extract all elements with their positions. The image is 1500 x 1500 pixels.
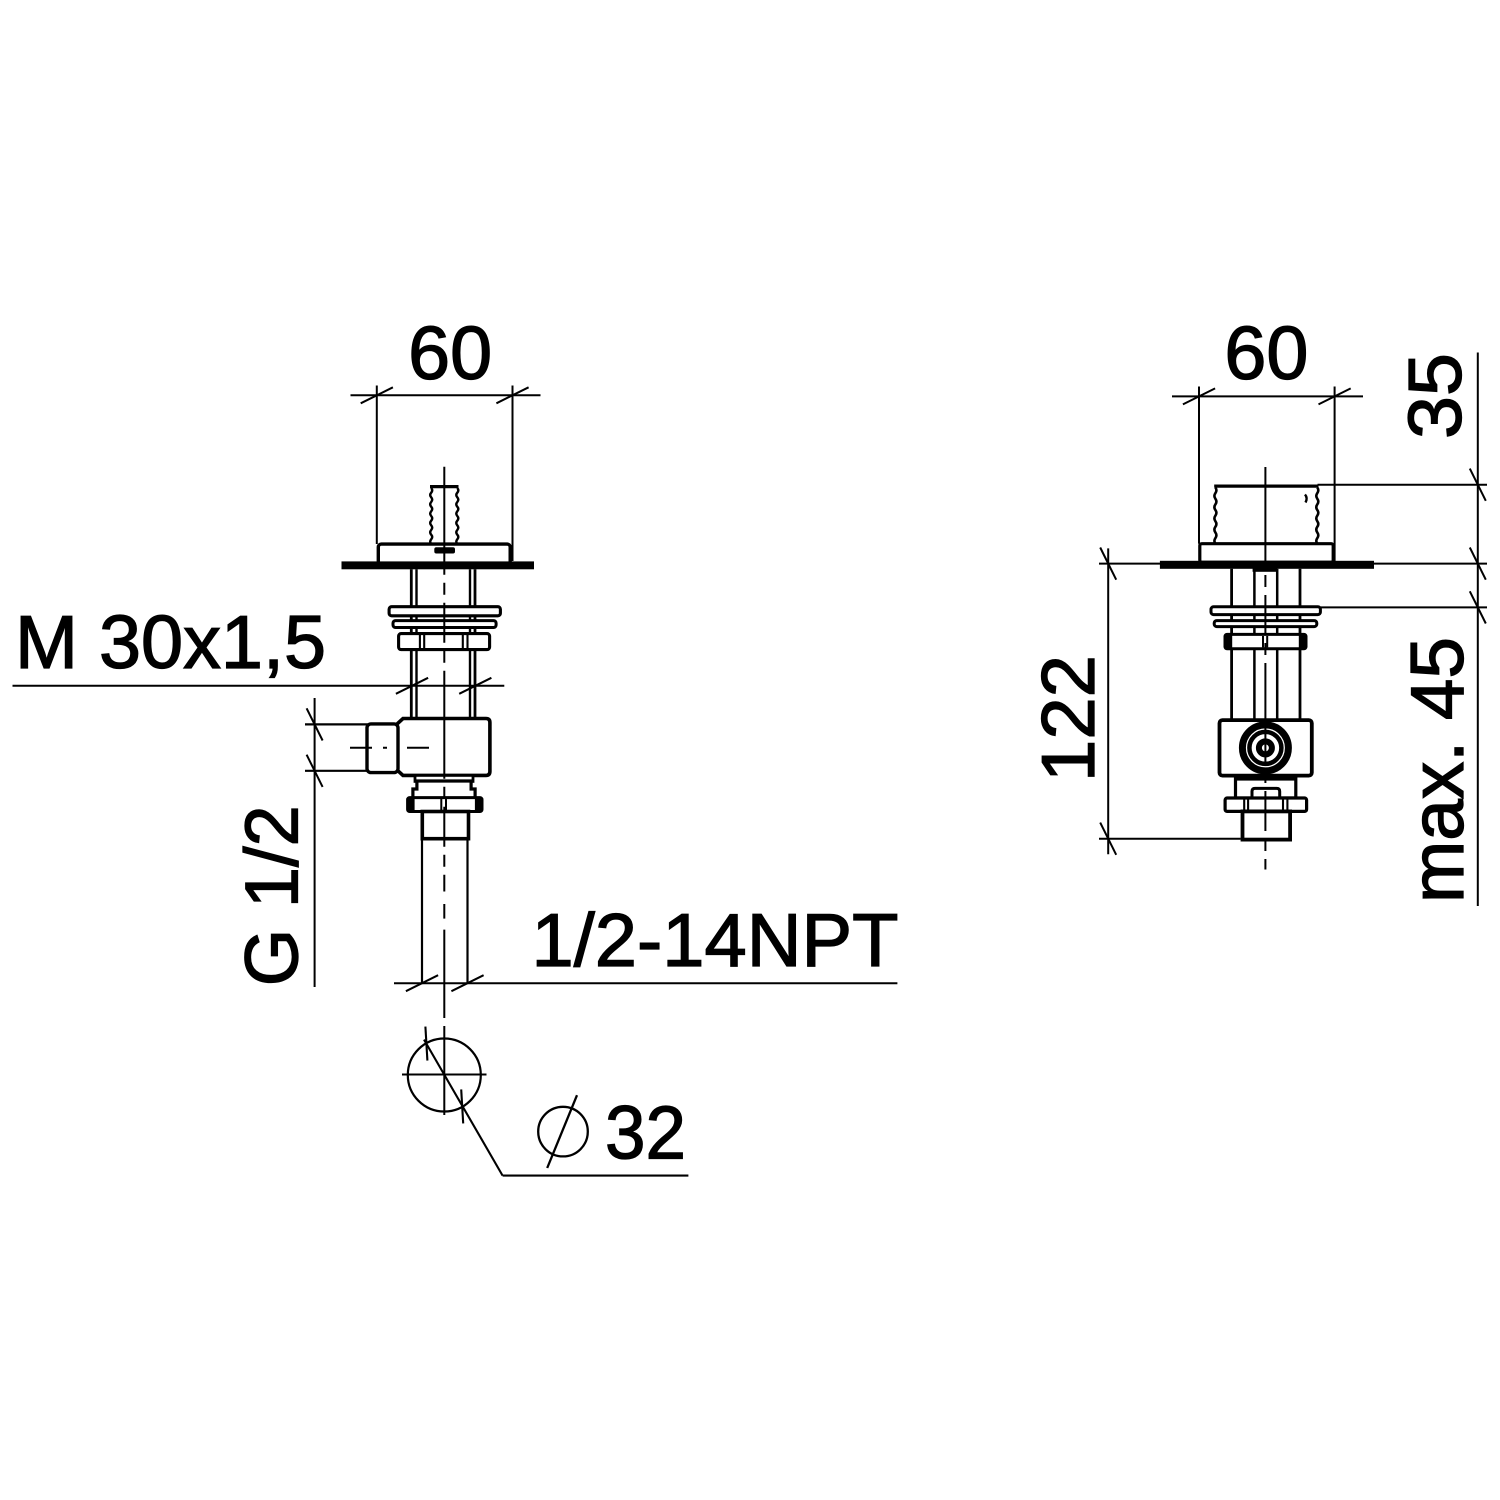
- hex nut (right view): [1225, 634, 1306, 649]
- valve body block (left view): [395, 719, 490, 776]
- svg-text:35: 35: [1393, 353, 1477, 439]
- hex nut upper (left view): [399, 634, 490, 650]
- black clamp mark on cap (left view): [434, 547, 455, 553]
- lower flange (left view): [413, 775, 475, 797]
- washer 2 (right view): [1214, 621, 1317, 627]
- svg-text:G 1/2: G 1/2: [230, 805, 314, 986]
- dimension line 122: [1099, 548, 1241, 855]
- washer 1 (right view): [1211, 607, 1320, 615]
- washer 1 (left view): [389, 607, 500, 616]
- connection stub (left view): [422, 812, 468, 839]
- centerline (left view): [443, 467, 445, 892]
- locking nut lower (left view): [407, 797, 483, 812]
- svg-text:32: 32: [605, 1091, 686, 1175]
- washer 2 (left view): [393, 621, 496, 628]
- outlet sleeve (left view): [367, 724, 398, 773]
- knurled knob (right view): [1214, 486, 1318, 544]
- circle crosshair: [402, 1074, 487, 1076]
- side pipe edges (left view): [305, 724, 368, 770]
- svg-text:M 30x1,5: M 30x1,5: [15, 600, 326, 684]
- cap base (right view): [1200, 544, 1333, 563]
- svg-text:60: 60: [408, 311, 492, 395]
- locking nut lower (right view): [1225, 798, 1307, 811]
- valve body block (right view): [1220, 720, 1312, 776]
- lower flange (right view): [1236, 776, 1296, 798]
- dimension G 1/2: [307, 698, 323, 987]
- svg-text:60: 60: [1224, 311, 1308, 395]
- outlet port rings (right view): [1242, 725, 1288, 771]
- dimension lines 35 and max. 45: [1318, 353, 1488, 907]
- side pipe centerline: [350, 747, 432, 749]
- escutcheon cap (left view): [378, 544, 510, 564]
- threaded stem M30 (left view): [430, 487, 459, 544]
- connection stub (right view): [1243, 811, 1291, 839]
- lower pipe (left view): [422, 839, 468, 984]
- mounting plate (right view): [1160, 561, 1374, 569]
- centerline (right view): [1264, 467, 1266, 870]
- body tube (left view): [411, 569, 475, 718]
- body tube (right view): [1232, 569, 1300, 720]
- dimension line 1/2-14NPT: [394, 975, 897, 991]
- svg-text:1/2-14NPT: 1/2-14NPT: [532, 898, 899, 982]
- svg-text:max. 45: max. 45: [1395, 637, 1479, 903]
- dimension line 60 (left view): [351, 386, 541, 562]
- diameter symbol: [538, 1095, 588, 1168]
- dimension line 60 (right view): [1172, 387, 1363, 562]
- pipe circle diameter 32: [408, 1039, 481, 1112]
- diameter leader line: [424, 1027, 688, 1176]
- mounting plate (left view): [342, 561, 535, 569]
- svg-text:122: 122: [1026, 655, 1110, 782]
- leader line M 30x1,5: [13, 678, 505, 694]
